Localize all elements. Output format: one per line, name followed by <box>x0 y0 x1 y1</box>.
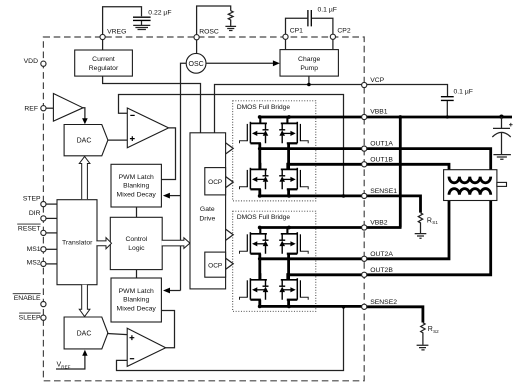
svg-text:PWM Latch: PWM Latch <box>119 174 154 181</box>
OUT1A line <box>260 147 364 150</box>
wire DAC1 to comparator1 + <box>108 139 127 141</box>
svg-text:0.1 µF: 0.1 µF <box>318 7 337 14</box>
junction <box>287 162 291 166</box>
junction <box>258 257 262 261</box>
pin OUT1A <box>362 146 367 151</box>
junction <box>287 305 291 309</box>
wire STEP to translator <box>46 203 57 205</box>
svg-text:REF: REF <box>24 106 38 113</box>
svg-text:MS1: MS1 <box>27 246 41 253</box>
OUT2A line <box>260 257 364 260</box>
svg-text:VDD: VDD <box>24 58 38 65</box>
gate drive box <box>190 133 226 289</box>
ground RS2 <box>417 345 429 350</box>
wire ROSC pin to OSC <box>196 40 198 54</box>
OUT1B line <box>289 163 365 166</box>
svg-text:CP1: CP1 <box>290 28 303 35</box>
svg-text:SLEEP: SLEEP <box>19 314 41 321</box>
svg-text:Blanking: Blanking <box>123 297 149 304</box>
pin VDD <box>41 61 46 66</box>
wire VREF to DAC2 with arrow <box>56 355 85 369</box>
wire OSC down to PWM latches <box>181 63 187 290</box>
DMOS full bridge 2 dotted box <box>233 211 316 311</box>
transistor high-left bridge 2 <box>240 227 269 254</box>
pin RESET <box>41 230 46 235</box>
pin ENABLE <box>41 302 46 307</box>
wire arrow into PWM latch 1 <box>169 195 181 197</box>
pin CP1 <box>283 34 288 39</box>
capacitor 0.22uF <box>133 17 151 20</box>
pin SENSE2 <box>362 304 367 309</box>
wire VREG pin to current regulator <box>102 40 104 50</box>
arrow OCP2 bridge2 <box>226 258 234 269</box>
ground bulk cap <box>493 155 511 160</box>
svg-text:Regulator: Regulator <box>89 65 119 72</box>
motor body box <box>444 170 497 201</box>
wire cap to VBB1 <box>446 101 448 117</box>
junction <box>287 273 291 277</box>
svg-text:DIR: DIR <box>29 210 41 217</box>
junction <box>258 115 262 119</box>
bus arrow control logic to gate drive <box>162 238 190 249</box>
op-amp REF buffer <box>53 94 83 122</box>
pin MS1 <box>41 247 46 252</box>
sense rail bridge 2 <box>260 305 365 308</box>
SENSE2 external wire <box>364 307 423 323</box>
minus sign <box>130 358 134 360</box>
wire RESET to translator <box>46 232 57 234</box>
svg-text:VREG: VREG <box>107 28 126 35</box>
svg-text:OUT2B: OUT2B <box>370 267 393 274</box>
svg-text:S1: S1 <box>432 220 438 225</box>
motor winding 1 <box>449 177 491 183</box>
svg-text:VCP: VCP <box>370 77 384 84</box>
pin ROSC <box>194 35 199 40</box>
transistor high-right bridge 2 <box>279 227 308 254</box>
resistor ROSC <box>228 11 233 27</box>
junction <box>258 147 262 151</box>
wire current regulator to gate drive top <box>103 76 201 133</box>
junction <box>287 226 291 230</box>
svg-text:DMOS Full Bridge: DMOS Full Bridge <box>237 214 290 221</box>
ground VREG cap <box>133 25 150 29</box>
plus sign <box>130 335 135 340</box>
transistor low-left bridge 1 <box>240 163 269 190</box>
wire DIR to translator <box>46 217 57 219</box>
wire arrow OSC to charge pump <box>206 62 274 64</box>
svg-text:VBB1: VBB1 <box>370 109 388 116</box>
translator box <box>57 200 97 285</box>
comparator 2 <box>127 328 166 366</box>
svg-text:Drive: Drive <box>199 216 215 223</box>
transistor high-right bridge 1 <box>279 117 308 144</box>
comparator 1 <box>127 108 168 148</box>
transistor low-right bridge 2 <box>279 273 308 300</box>
junction feedback sense1 <box>342 194 346 198</box>
svg-text:Mixed Decay: Mixed Decay <box>117 191 157 198</box>
svg-text:RESET: RESET <box>18 225 41 232</box>
svg-text:Pump: Pump <box>300 65 318 72</box>
pin OUT2B <box>362 272 367 277</box>
pin VBB2 <box>362 225 367 230</box>
wire amp to DAC1 with arrow <box>83 108 85 119</box>
pin REF <box>41 106 46 111</box>
svg-text:R: R <box>427 217 432 224</box>
overline RESET <box>17 223 40 225</box>
svg-text:DAC: DAC <box>77 330 92 337</box>
pin SLEEP <box>41 315 46 320</box>
wire comparator2 minus to sense2 feedback <box>117 307 344 371</box>
wire DAC2 to comparator2 + <box>107 334 127 335</box>
chip boundary dashed border <box>43 37 364 381</box>
svg-text:R: R <box>428 326 433 333</box>
svg-text:PWM Latch: PWM Latch <box>119 288 154 295</box>
wire comparator1 minus to sense1 feedback <box>119 95 344 196</box>
OUT2A external wire <box>364 195 449 259</box>
DMOS full bridge 1 dotted box <box>233 101 316 201</box>
overline SLEEP <box>19 312 40 314</box>
wire low-right source to sense rail 2 <box>287 300 290 307</box>
bulk capacitor on VBB <box>492 117 510 154</box>
wire low-left source to sense rail 2 <box>258 300 261 307</box>
overline ENABLE <box>13 293 41 295</box>
svg-text:VBB2: VBB2 <box>370 219 388 226</box>
wire low-left source to sense rail 1 <box>258 189 261 196</box>
capacitor 0.1uF flying <box>308 10 311 26</box>
control logic box <box>110 217 162 269</box>
arrow gate drive to bridge2 <box>226 229 234 240</box>
svg-text:OCP: OCP <box>208 179 222 186</box>
VBB rail bridge 1 <box>260 116 365 119</box>
DAC 1 <box>64 125 108 156</box>
junction <box>287 194 291 198</box>
svg-text:OSC: OSC <box>189 61 204 68</box>
ground ROSC resistor <box>225 26 236 30</box>
wire CP1 pin to charge pump <box>285 39 287 49</box>
svg-text:DMOS Full Bridge: DMOS Full Bridge <box>237 104 290 111</box>
pin STEP <box>41 202 46 207</box>
svg-text:SENSE1: SENSE1 <box>370 188 397 195</box>
pin VBB1 <box>362 114 367 119</box>
VBB rail bridge 2 <box>260 226 365 229</box>
svg-text:Logic: Logic <box>128 245 145 252</box>
pin SENSE1 <box>362 193 367 198</box>
ground RS1 <box>415 234 427 239</box>
resistor RS2 <box>421 323 425 345</box>
bus arrow translator to control logic <box>96 238 111 249</box>
wire ROSC to resistor <box>197 6 231 35</box>
OCP box 1 <box>205 168 226 195</box>
minus sign <box>130 114 134 116</box>
VCP external wire to cap <box>367 85 448 97</box>
wire VCP net to gate drive <box>215 85 365 133</box>
svg-text:Gate: Gate <box>200 206 215 213</box>
svg-text:CP2: CP2 <box>337 28 350 35</box>
VBB riser wire VBB1 to VBB2 <box>399 117 402 228</box>
DAC 2 <box>64 317 108 349</box>
wire REF pin to amp <box>46 107 53 109</box>
pin MS2 <box>41 261 46 266</box>
OUT2B line <box>289 273 365 276</box>
svg-text:SENSE2: SENSE2 <box>370 299 397 306</box>
svg-text:DAC: DAC <box>77 137 92 144</box>
svg-text:S2: S2 <box>433 329 439 334</box>
transistor low-left bridge 2 <box>240 273 269 300</box>
wire flying cap to CP2 <box>312 18 333 34</box>
OUT1B external wire <box>364 164 449 176</box>
pin CP2 <box>330 34 335 39</box>
svg-text:ROSC: ROSC <box>199 28 219 35</box>
transistor low-right bridge 1 <box>279 163 308 190</box>
junction <box>258 305 262 309</box>
wire half-bridge right mid vertical 2 <box>287 254 290 280</box>
wire CP2 pin to charge pump <box>332 39 334 49</box>
svg-text:0.22 µF: 0.22 µF <box>148 10 171 17</box>
PWM latch blanking mixed decay box 2 <box>111 278 161 322</box>
junction VBB riser <box>398 115 402 119</box>
wire half-bridge left mid vertical 1 <box>258 143 261 169</box>
svg-text:Translator: Translator <box>62 239 93 246</box>
svg-text:Charge: Charge <box>298 56 321 63</box>
wire charge pump to VCP net <box>308 76 310 84</box>
pin VCP <box>362 82 367 87</box>
wire half-bridge right mid vertical 1 <box>287 143 290 169</box>
OCP box 2 <box>205 252 226 277</box>
OUT1A external wire <box>364 149 491 177</box>
junction bulk cap <box>499 115 503 119</box>
svg-text:Mixed Decay: Mixed Decay <box>117 305 157 312</box>
capacitor 0.1uF VCP <box>441 97 454 101</box>
svg-text:0.1 µF: 0.1 µF <box>454 89 473 96</box>
plus sign <box>130 136 135 141</box>
pin OUT2A <box>362 256 367 261</box>
wire VREG to bypass cap <box>103 7 142 35</box>
arrow gate drive to bridge1 <box>226 143 234 154</box>
charge pump box <box>280 50 338 77</box>
svg-text:Blanking: Blanking <box>123 183 149 190</box>
junction charge pump VCP <box>307 83 311 87</box>
motor winding 2 <box>449 189 491 195</box>
motor shaft stub <box>497 182 507 186</box>
wire cap to ground <box>141 21 143 25</box>
svg-text:OUT2A: OUT2A <box>370 251 393 258</box>
pin VREG <box>100 34 105 39</box>
svg-text:MS2: MS2 <box>27 259 41 266</box>
svg-text:Control: Control <box>125 236 147 243</box>
resistor RS1 <box>418 213 422 233</box>
sense rail bridge 1 <box>260 194 365 197</box>
svg-text:OCP: OCP <box>208 263 222 270</box>
OUT2B external wire <box>364 195 491 275</box>
svg-text:STEP: STEP <box>23 196 41 203</box>
wire MS2 to translator <box>46 263 57 265</box>
VBB2 external wire <box>364 226 401 229</box>
pin DIR <box>41 216 46 221</box>
wire CP1 to flying cap <box>286 18 308 34</box>
svg-text:ENABLE: ENABLE <box>14 295 41 302</box>
VBB1 external supply line <box>364 116 512 119</box>
svg-text:OUT1A: OUT1A <box>370 141 393 148</box>
arrow OCP1 bridge1 <box>226 177 234 188</box>
svg-text:Current: Current <box>92 56 115 63</box>
bus arrow translator to DAC1 <box>79 157 90 200</box>
junction <box>258 226 262 230</box>
current regulator box <box>75 50 133 76</box>
wire low-right source to sense rail 1 <box>287 189 290 196</box>
PWM latch blanking mixed decay box 1 <box>111 164 161 207</box>
wire comparator2 output to PWM latch 2 <box>161 311 174 348</box>
junction <box>287 115 291 119</box>
pin OUT1B <box>362 162 367 167</box>
bus arrow translator to DAC2 <box>79 285 90 317</box>
SENSE1 external wire <box>364 196 420 213</box>
wire MS1 to translator <box>46 248 57 250</box>
oscillator OSC <box>186 53 206 73</box>
junction VCP cap <box>446 115 449 118</box>
junction <box>258 194 262 198</box>
wire arrow into PWM latch 2 <box>169 290 180 292</box>
svg-text:OUT1B: OUT1B <box>370 156 393 163</box>
transistor high-left bridge 1 <box>240 117 269 144</box>
plus polarity mark <box>509 123 513 127</box>
wire half-bridge left mid vertical 2 <box>258 254 261 280</box>
wire control logic to PWM2 <box>136 270 138 278</box>
wire PWM1 to control logic <box>136 207 138 217</box>
wire comparator1 output to PWM latch 1 <box>161 128 175 180</box>
junction feedback sense2 <box>342 305 346 309</box>
